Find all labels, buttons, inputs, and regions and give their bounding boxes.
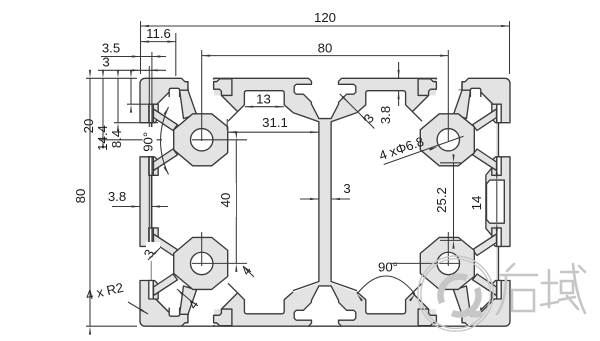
dim 3.5: [101, 56, 166, 58]
hole D: [437, 252, 459, 274]
pocket lips: [153, 104, 158, 123]
dim 80 left: [89, 78, 91, 326]
svg-text:3: 3: [343, 181, 350, 196]
dim 8.4: [130, 78, 132, 104]
svg-text:90°: 90°: [378, 260, 398, 275]
angle 90 bottom: [357, 276, 415, 294]
svg-text:14.4: 14.4: [95, 125, 110, 151]
corner slot cavities: [169, 88, 179, 97]
dim 11.6: [141, 41, 176, 43]
hole B: [437, 129, 459, 151]
hook block bottom-right: [418, 309, 436, 326]
dim 14.4: [117, 78, 119, 122]
13mm cavity top-right: [357, 91, 422, 122]
dim 14: [496, 181, 498, 222]
hole C: [191, 252, 213, 274]
boss A: [174, 114, 228, 166]
pocket slits: [149, 104, 154, 123]
wedge walls: [221, 95, 237, 111]
right-face channel: [487, 180, 505, 223]
left cavity: [152, 80, 319, 326]
hook block top-left: [214, 79, 232, 96]
svg-text:25.2: 25.2: [434, 187, 449, 213]
right cavity: [331, 80, 496, 326]
dim 3.8 left wall: [112, 206, 140, 208]
dim 80 top: [202, 55, 449, 57]
13mm cavity bottom-right: [357, 283, 422, 314]
dim 20: [102, 78, 104, 140]
hole D centerline: [447, 232, 449, 266]
svg-text:11.6: 11.6: [146, 26, 171, 41]
dim 3.8 top wall: [398, 62, 400, 78]
watermark text (drawn strokes, CJK not in Liberation): [497, 264, 585, 314]
svg-text:3.8: 3.8: [378, 106, 393, 124]
dim 25.2: [453, 163, 455, 241]
hole A: [191, 129, 213, 151]
nose outlines: [185, 82, 188, 91]
svg-text:120: 120: [314, 10, 336, 25]
dim 3 rib: [300, 198, 318, 200]
label 3 web at boss C: [146, 242, 160, 261]
svg-text:40: 40: [218, 193, 233, 208]
svg-text:13: 13: [256, 92, 271, 107]
watermark logo: [418, 256, 493, 331]
svg-text:3: 3: [102, 54, 109, 69]
svg-text:20: 20: [81, 119, 96, 134]
dim 40: [235, 140, 237, 264]
boss C: [174, 237, 228, 289]
svg-text:3.8: 3.8: [108, 189, 126, 204]
dim 3 left: [98, 69, 166, 71]
hook block top-right: [418, 79, 436, 96]
boss D: [420, 237, 474, 289]
rib walls and tent slopes: [293, 113, 319, 291]
svg-text:8.4: 8.4: [109, 130, 124, 148]
svg-text:14: 14: [469, 196, 484, 211]
svg-text:80: 80: [73, 189, 88, 204]
boss B: [420, 114, 474, 166]
svg-text:31.1: 31.1: [262, 115, 288, 130]
corner block chamfers: [152, 90, 189, 123]
hole C centerline: [201, 232, 203, 266]
svg-text:80: 80: [318, 41, 333, 56]
dim 3 diagonal wall: [340, 94, 375, 129]
dim 31.1: [227, 131, 318, 133]
boss arms: [180, 90, 197, 118]
13mm cavity bottom-left: [228, 283, 293, 314]
hook block bottom-left: [214, 309, 232, 326]
dim 13: [245, 106, 284, 108]
wall inner surface lines: [151, 157, 153, 246]
angle 90 left: [161, 107, 169, 175]
label 4 x Phi 6.8: [384, 136, 464, 164]
13mm cavity top-left: [228, 91, 293, 122]
svg-text:3.5: 3.5: [102, 41, 120, 56]
dim 120: [141, 25, 510, 27]
svg-text:90°: 90°: [141, 132, 156, 152]
profile silhouette: [140, 78, 510, 326]
